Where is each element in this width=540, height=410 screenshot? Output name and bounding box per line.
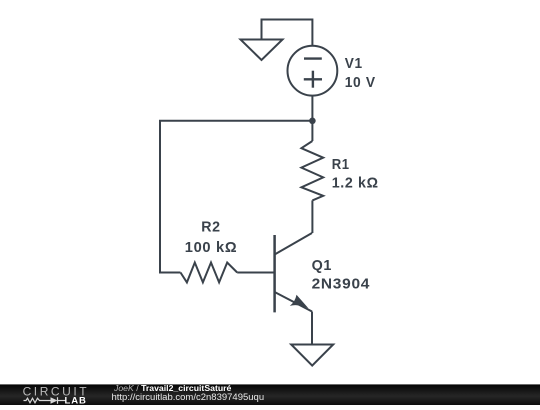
wire top-ground to V1 top <box>262 20 313 46</box>
footer credit text <box>114 384 231 392</box>
node: V1/R1/R2 junction <box>309 118 316 125</box>
transistor Q1 <box>275 233 312 312</box>
svg-text:Q1: Q1 <box>312 257 333 274</box>
svg-text:1.2 kΩ: 1.2 kΩ <box>332 175 379 192</box>
wire V1 bottom to node <box>311 96 313 121</box>
svg-text:2N3904: 2N3904 <box>312 276 371 293</box>
CircuitLab logo <box>0 384 100 405</box>
svg-text:R1: R1 <box>332 156 350 173</box>
svg-text:LAB: LAB <box>65 396 87 406</box>
resistor R1 <box>301 141 323 200</box>
wire Q1 emitter to ground <box>311 312 313 345</box>
wire R2 to Q1 base <box>237 272 274 274</box>
voltage source V1 <box>288 46 338 96</box>
wire node to R2 (left branch) <box>160 121 312 273</box>
svg-text:R2: R2 <box>201 219 221 236</box>
svg-text:100 kΩ: 100 kΩ <box>185 239 238 256</box>
svg-text:V1: V1 <box>345 55 363 72</box>
footer bar <box>0 384 540 405</box>
ground (bottom, at Q1 emitter) <box>291 345 333 366</box>
resistor R2 <box>181 263 238 283</box>
wire node to R1 top <box>311 121 313 141</box>
svg-text:10 V: 10 V <box>345 74 376 91</box>
ground (top, at V1 negative) <box>241 40 283 61</box>
wire R1 bottom to Q1 collector <box>311 200 313 233</box>
